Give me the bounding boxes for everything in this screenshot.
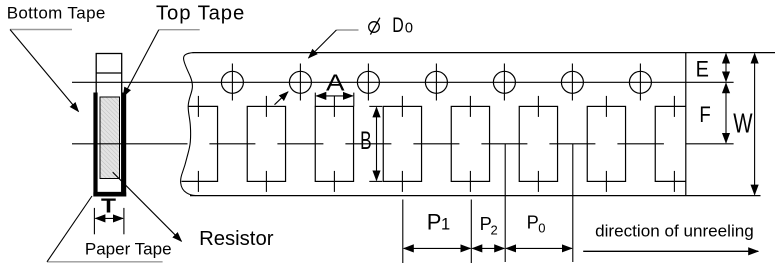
- svg-text:P: P: [427, 209, 442, 234]
- svg-text:1: 1: [441, 215, 450, 233]
- svg-text:F: F: [699, 102, 710, 127]
- svg-text:0: 0: [538, 221, 545, 236]
- svg-text:T: T: [101, 196, 116, 218]
- svg-text:A: A: [326, 70, 345, 96]
- svg-text:B: B: [360, 127, 372, 155]
- svg-text:0: 0: [405, 20, 413, 36]
- svg-text:P: P: [527, 212, 539, 233]
- svg-text:2: 2: [491, 222, 498, 237]
- svg-text:E: E: [696, 57, 709, 82]
- svg-text:D: D: [392, 14, 404, 37]
- svg-text:Resistor: Resistor: [199, 228, 274, 250]
- svg-text:direction of unreeling: direction of unreeling: [595, 222, 754, 241]
- svg-text:Paper Tape: Paper Tape: [85, 240, 172, 259]
- svg-text:Top Tape: Top Tape: [156, 3, 245, 25]
- svg-text:Bottom Tape: Bottom Tape: [7, 4, 106, 23]
- svg-text:W: W: [733, 108, 753, 139]
